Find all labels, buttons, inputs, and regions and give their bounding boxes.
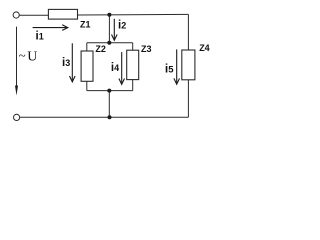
- svg-text:~: ~: [19, 48, 26, 63]
- svg-text:i1: i1: [36, 31, 44, 43]
- svg-text:Z2: Z2: [95, 44, 106, 54]
- svg-text:i4: i4: [111, 62, 119, 74]
- svg-text:Z1: Z1: [80, 19, 91, 29]
- svg-text:i2: i2: [118, 20, 126, 32]
- svg-text:i3: i3: [62, 57, 70, 69]
- svg-text:Z3: Z3: [141, 44, 152, 54]
- svg-text:Z4: Z4: [199, 43, 210, 53]
- svg-text:U: U: [27, 49, 37, 64]
- svg-text:i5: i5: [165, 61, 174, 75]
